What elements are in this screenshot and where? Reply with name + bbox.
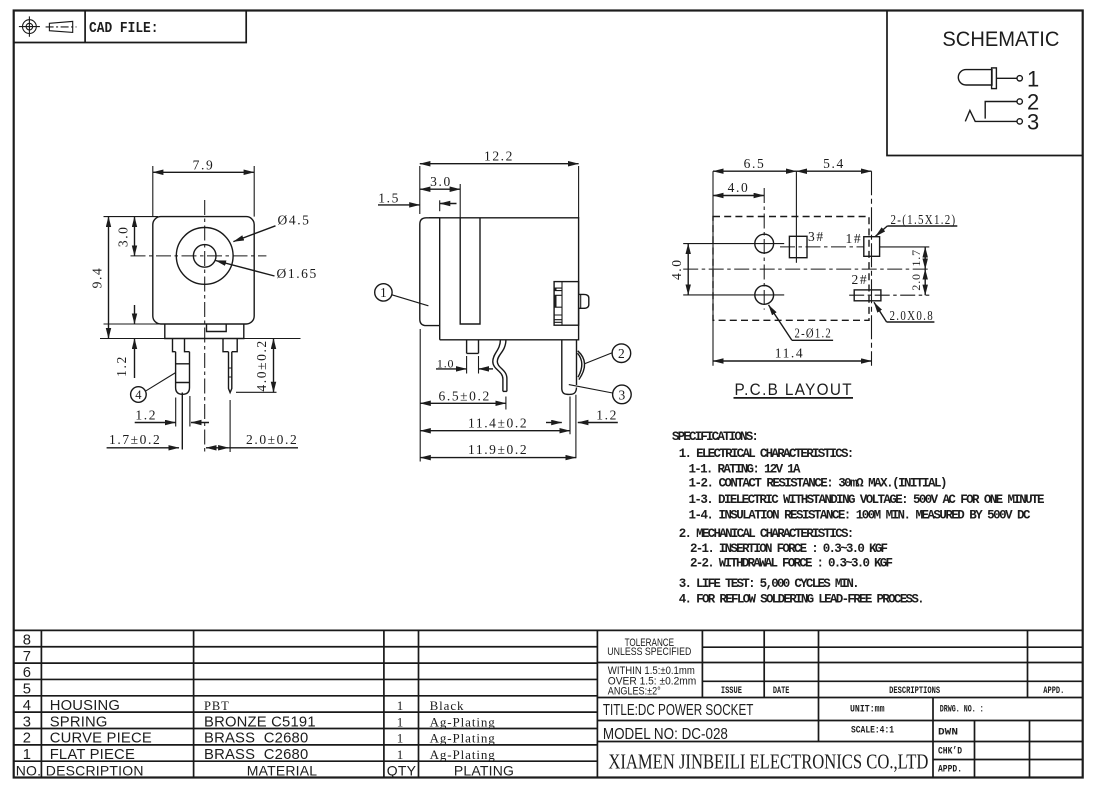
svg-text:BRASS C2680: BRASS C2680 — [204, 731, 308, 747]
svg-text:P.C.B LAYOUT: P.C.B LAYOUT — [735, 380, 854, 399]
svg-text:1.2: 1.2 — [114, 355, 129, 377]
svg-text:Ag-Plating: Ag-Plating — [430, 731, 496, 746]
svg-text:3#: 3# — [808, 229, 825, 244]
svg-text:Ag-Plating: Ag-Plating — [430, 747, 496, 762]
svg-text:1.2: 1.2 — [135, 408, 157, 423]
svg-text:1. ELECTRICAL CHARACTERISTICS:: 1. ELECTRICAL CHARACTERISTICS: — [679, 447, 855, 461]
svg-text:CAD FILE:: CAD FILE: — [89, 21, 159, 37]
svg-text:11.4: 11.4 — [775, 346, 805, 361]
svg-text:XIAMEN JINBEILI ELECTRONICS CO: XIAMEN JINBEILI ELECTRONICS CO.,LTD — [608, 749, 928, 773]
svg-text:Ø1.65: Ø1.65 — [277, 266, 318, 281]
svg-text:1-1. RATING: 12V 1A: 1-1. RATING: 12V 1A — [689, 462, 801, 476]
svg-text:SCALE:4:1: SCALE:4:1 — [851, 725, 894, 737]
svg-text:2-2. WITHDRAWAL FORCE : 0.3~3.: 2-2. WITHDRAWAL FORCE : 0.3~3.0 KGF — [690, 557, 893, 571]
svg-text:4.0±0.2: 4.0±0.2 — [254, 339, 269, 391]
svg-text:2: 2 — [618, 346, 625, 361]
svg-text:PLATING: PLATING — [454, 762, 514, 778]
svg-text:1: 1 — [380, 285, 387, 300]
svg-text:1: 1 — [397, 698, 404, 713]
svg-text:HOUSING: HOUSING — [50, 698, 120, 714]
svg-text:CURVE PIECE: CURVE PIECE — [50, 731, 152, 747]
svg-text:MATERIAL: MATERIAL — [247, 762, 318, 778]
svg-text:1.7: 1.7 — [909, 249, 923, 266]
svg-text:4.0: 4.0 — [728, 180, 750, 195]
svg-text:2: 2 — [23, 731, 31, 747]
svg-text:DATE: DATE — [773, 685, 790, 697]
svg-text:1#: 1# — [846, 231, 863, 246]
svg-text:8: 8 — [23, 633, 31, 649]
svg-text:UNIT:mm: UNIT:mm — [850, 704, 885, 716]
svg-text:UNLESS SPECIFIED: UNLESS SPECIFIED — [607, 646, 691, 658]
svg-text:FLAT PIECE: FLAT PIECE — [50, 747, 135, 763]
svg-text:2-1. INSERTION FORCE : 0.3~3.0: 2-1. INSERTION FORCE : 0.3~3.0 KGF — [690, 542, 888, 556]
svg-text:1-3. DIELECTRIC WITHSTANDING V: 1-3. DIELECTRIC WITHSTANDING VOLTAGE: 50… — [689, 493, 1045, 507]
svg-text:TITLE:DC POWER SOCKET: TITLE:DC POWER SOCKET — [603, 702, 754, 719]
svg-text:SPECIFICATIONS:: SPECIFICATIONS: — [672, 430, 759, 444]
svg-text:PBT: PBT — [204, 699, 230, 713]
svg-text:5.4: 5.4 — [823, 156, 845, 171]
svg-text:BRASS C2680: BRASS C2680 — [204, 747, 308, 763]
svg-text:1.2: 1.2 — [596, 407, 618, 422]
svg-text:1.7±0.2: 1.7±0.2 — [109, 432, 161, 447]
svg-text:3: 3 — [1027, 110, 1039, 135]
svg-text:1-2. CONTACT RESISTANCE: 30mΩ: 1-2. CONTACT RESISTANCE: 30mΩ MAX.(INITI… — [689, 477, 948, 491]
svg-text:2-Ø1.2: 2-Ø1.2 — [795, 326, 833, 341]
svg-text:11.9±0.2: 11.9±0.2 — [468, 442, 528, 457]
svg-text:2.0±0.2: 2.0±0.2 — [246, 432, 298, 447]
svg-text:1.5: 1.5 — [378, 190, 400, 205]
svg-text:1: 1 — [397, 731, 404, 746]
svg-text:2.0X0.8: 2.0X0.8 — [890, 308, 935, 323]
svg-text:3. LIFE TEST: 5,000 CYCLES MIN: 3. LIFE TEST: 5,000 CYCLES MIN. — [679, 577, 860, 591]
svg-text:ANGLES:±2°: ANGLES:±2° — [608, 686, 661, 698]
svg-text:DWN: DWN — [938, 728, 958, 739]
svg-text:4: 4 — [23, 698, 31, 714]
svg-text:NO.: NO. — [16, 762, 42, 778]
svg-text:QTY: QTY — [387, 762, 417, 778]
svg-text:SPRING: SPRING — [50, 714, 108, 730]
svg-text:1: 1 — [23, 747, 31, 763]
svg-text:7.9: 7.9 — [193, 157, 215, 172]
svg-text:BRONZE C5191: BRONZE C5191 — [204, 714, 316, 730]
svg-text:DESCRIPTION: DESCRIPTION — [46, 762, 144, 778]
svg-text:ISSUE: ISSUE — [721, 685, 742, 697]
svg-text:1: 1 — [397, 747, 404, 762]
svg-text:9.4: 9.4 — [90, 267, 105, 289]
svg-text:CHK’D: CHK’D — [938, 746, 962, 758]
svg-text:6.5: 6.5 — [744, 156, 766, 171]
svg-text:APPD.: APPD. — [938, 765, 962, 776]
svg-text:3.0: 3.0 — [430, 174, 452, 189]
svg-text:2.0: 2.0 — [909, 273, 923, 290]
svg-text:MODEL NO: DC-028: MODEL NO: DC-028 — [603, 726, 728, 743]
svg-text:2#: 2# — [852, 272, 869, 287]
svg-text:Ag-Plating: Ag-Plating — [430, 714, 496, 729]
svg-text:Ø4.5: Ø4.5 — [278, 213, 311, 228]
svg-text:3: 3 — [23, 714, 31, 730]
svg-text:12.2: 12.2 — [484, 149, 514, 164]
svg-text:4.0: 4.0 — [669, 258, 684, 280]
svg-text:5: 5 — [23, 682, 31, 698]
svg-text:4: 4 — [135, 388, 142, 402]
svg-text:3.0: 3.0 — [115, 225, 130, 247]
svg-text:SCHEMATIC: SCHEMATIC — [942, 27, 1059, 51]
svg-text:Black: Black — [430, 698, 465, 713]
svg-text:1: 1 — [397, 714, 404, 729]
svg-text:6: 6 — [23, 665, 31, 681]
svg-text:2-(1.5X1.2): 2-(1.5X1.2) — [891, 212, 957, 227]
svg-text:4. FOR REFLOW SOLDERING LEAD-F: 4. FOR REFLOW SOLDERING LEAD-FREE PROCES… — [679, 593, 925, 607]
svg-text:1-4. INSULATION RESISTANCE: 10: 1-4. INSULATION RESISTANCE: 100M MIN. ME… — [689, 508, 1031, 522]
svg-text:DRWG. NO. :: DRWG. NO. : — [940, 704, 984, 716]
svg-text:6.5±0.2: 6.5±0.2 — [439, 388, 491, 403]
svg-text:DESCRIPTIONS: DESCRIPTIONS — [889, 685, 940, 697]
svg-text:7: 7 — [23, 649, 31, 665]
svg-text:2. MECHANICAL CHARACTERISTICS:: 2. MECHANICAL CHARACTERISTICS: — [679, 527, 855, 541]
svg-text:11.4±0.2: 11.4±0.2 — [468, 416, 528, 431]
svg-text:3: 3 — [619, 387, 626, 402]
svg-text:APPD.: APPD. — [1043, 685, 1064, 697]
svg-text:1: 1 — [1027, 67, 1039, 92]
